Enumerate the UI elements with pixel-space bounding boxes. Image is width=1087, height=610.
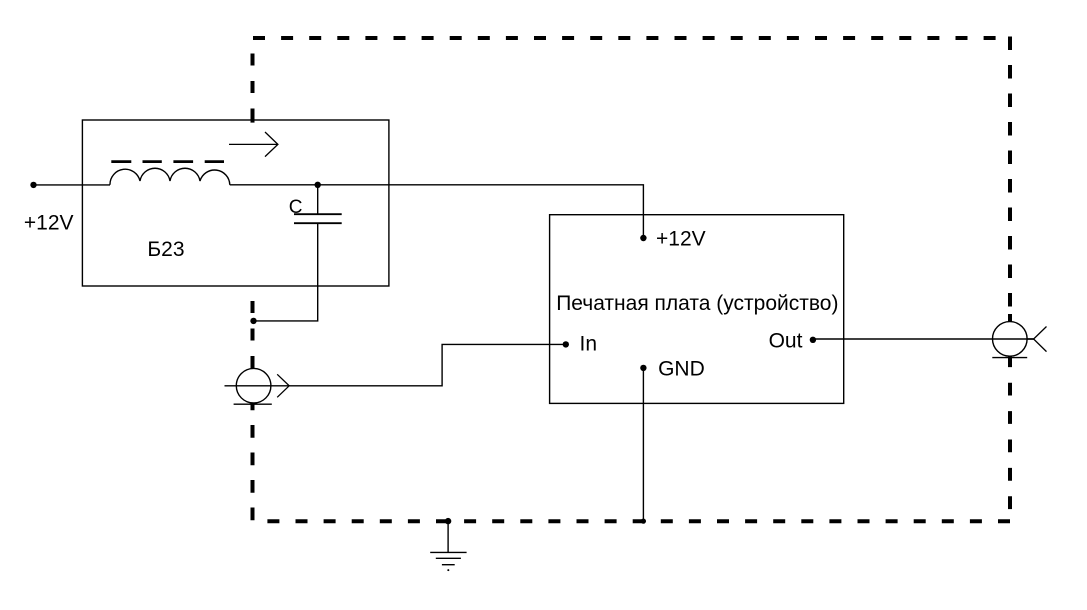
shield border top (253, 36, 1010, 40)
shield dash poke above output connector (1008, 314, 1012, 322)
ground symbol bar 2 (436, 557, 461, 559)
shield border left upper segment (251, 38, 255, 368)
ground symbol stem (447, 521, 449, 552)
svg-text:GND: GND (658, 358, 705, 381)
ground symbol bar 3 (442, 564, 455, 566)
node: +12V input terminal dot (30, 182, 36, 188)
wire: GND pin to shield bottom (642, 368, 644, 521)
pin dot In (563, 341, 569, 347)
capacitor C: bottom plate (294, 222, 342, 224)
signal direction arrow inside Б23 (229, 132, 278, 157)
capacitor C: top plate (294, 213, 342, 215)
connector J2: output feedthrough circle on shield (993, 322, 1028, 357)
shield border right lower segment (1008, 354, 1012, 523)
connector J1 tangent bar (234, 403, 272, 405)
connector J2 tangent bar (992, 357, 1027, 359)
wire: +12V input to inductor (34, 184, 111, 186)
node: capacitor tap junction (315, 182, 321, 188)
shield border bottom (253, 519, 1011, 523)
capacitor C: top lead (317, 185, 319, 214)
wire: inductor output to PCB +12V pin (230, 185, 644, 238)
ground symbol bar 1 (430, 551, 466, 553)
svg-text:Out: Out (769, 330, 803, 353)
node: GND-to-shield junction dot (641, 519, 646, 524)
pin dot Out (810, 337, 816, 343)
shield border right upper segment (1008, 37, 1012, 322)
filter module box Б23 (82, 120, 389, 286)
wire: Out pin to output connector (813, 338, 1034, 340)
svg-text:C: C (289, 197, 303, 218)
ground symbol dot (447, 569, 449, 571)
node: capacitor-to-shield junction dot (250, 318, 256, 324)
shield dash poke through Б23 box top edge (251, 119, 255, 122)
svg-text:+12V: +12V (656, 228, 706, 251)
pin dot GND (640, 365, 646, 371)
inductor core dashes (111, 160, 224, 163)
pin dot +12V on PCB (640, 235, 646, 241)
inductor L (choke in Б23) (110, 168, 230, 185)
svg-text:In: In (580, 333, 598, 356)
svg-text:Печатная плата (устройство): Печатная плата (устройство) (556, 292, 838, 315)
connector J1: input feedthrough circle on shield (236, 368, 271, 403)
arrowhead on input wire (277, 374, 289, 397)
output arrow fletching (1034, 327, 1047, 352)
wire: input connector to In pin (225, 344, 566, 385)
wire through connector J2 (993, 338, 1034, 340)
shield border left lower segment (251, 403, 255, 522)
svg-text:Б23: Б23 (147, 238, 184, 261)
PCB box (Печатная плата) (550, 215, 844, 404)
wire: capacitor bottom to shield border (254, 223, 318, 321)
svg-text:+12V: +12V (24, 211, 74, 234)
node: ground junction dot on shield (445, 518, 451, 524)
